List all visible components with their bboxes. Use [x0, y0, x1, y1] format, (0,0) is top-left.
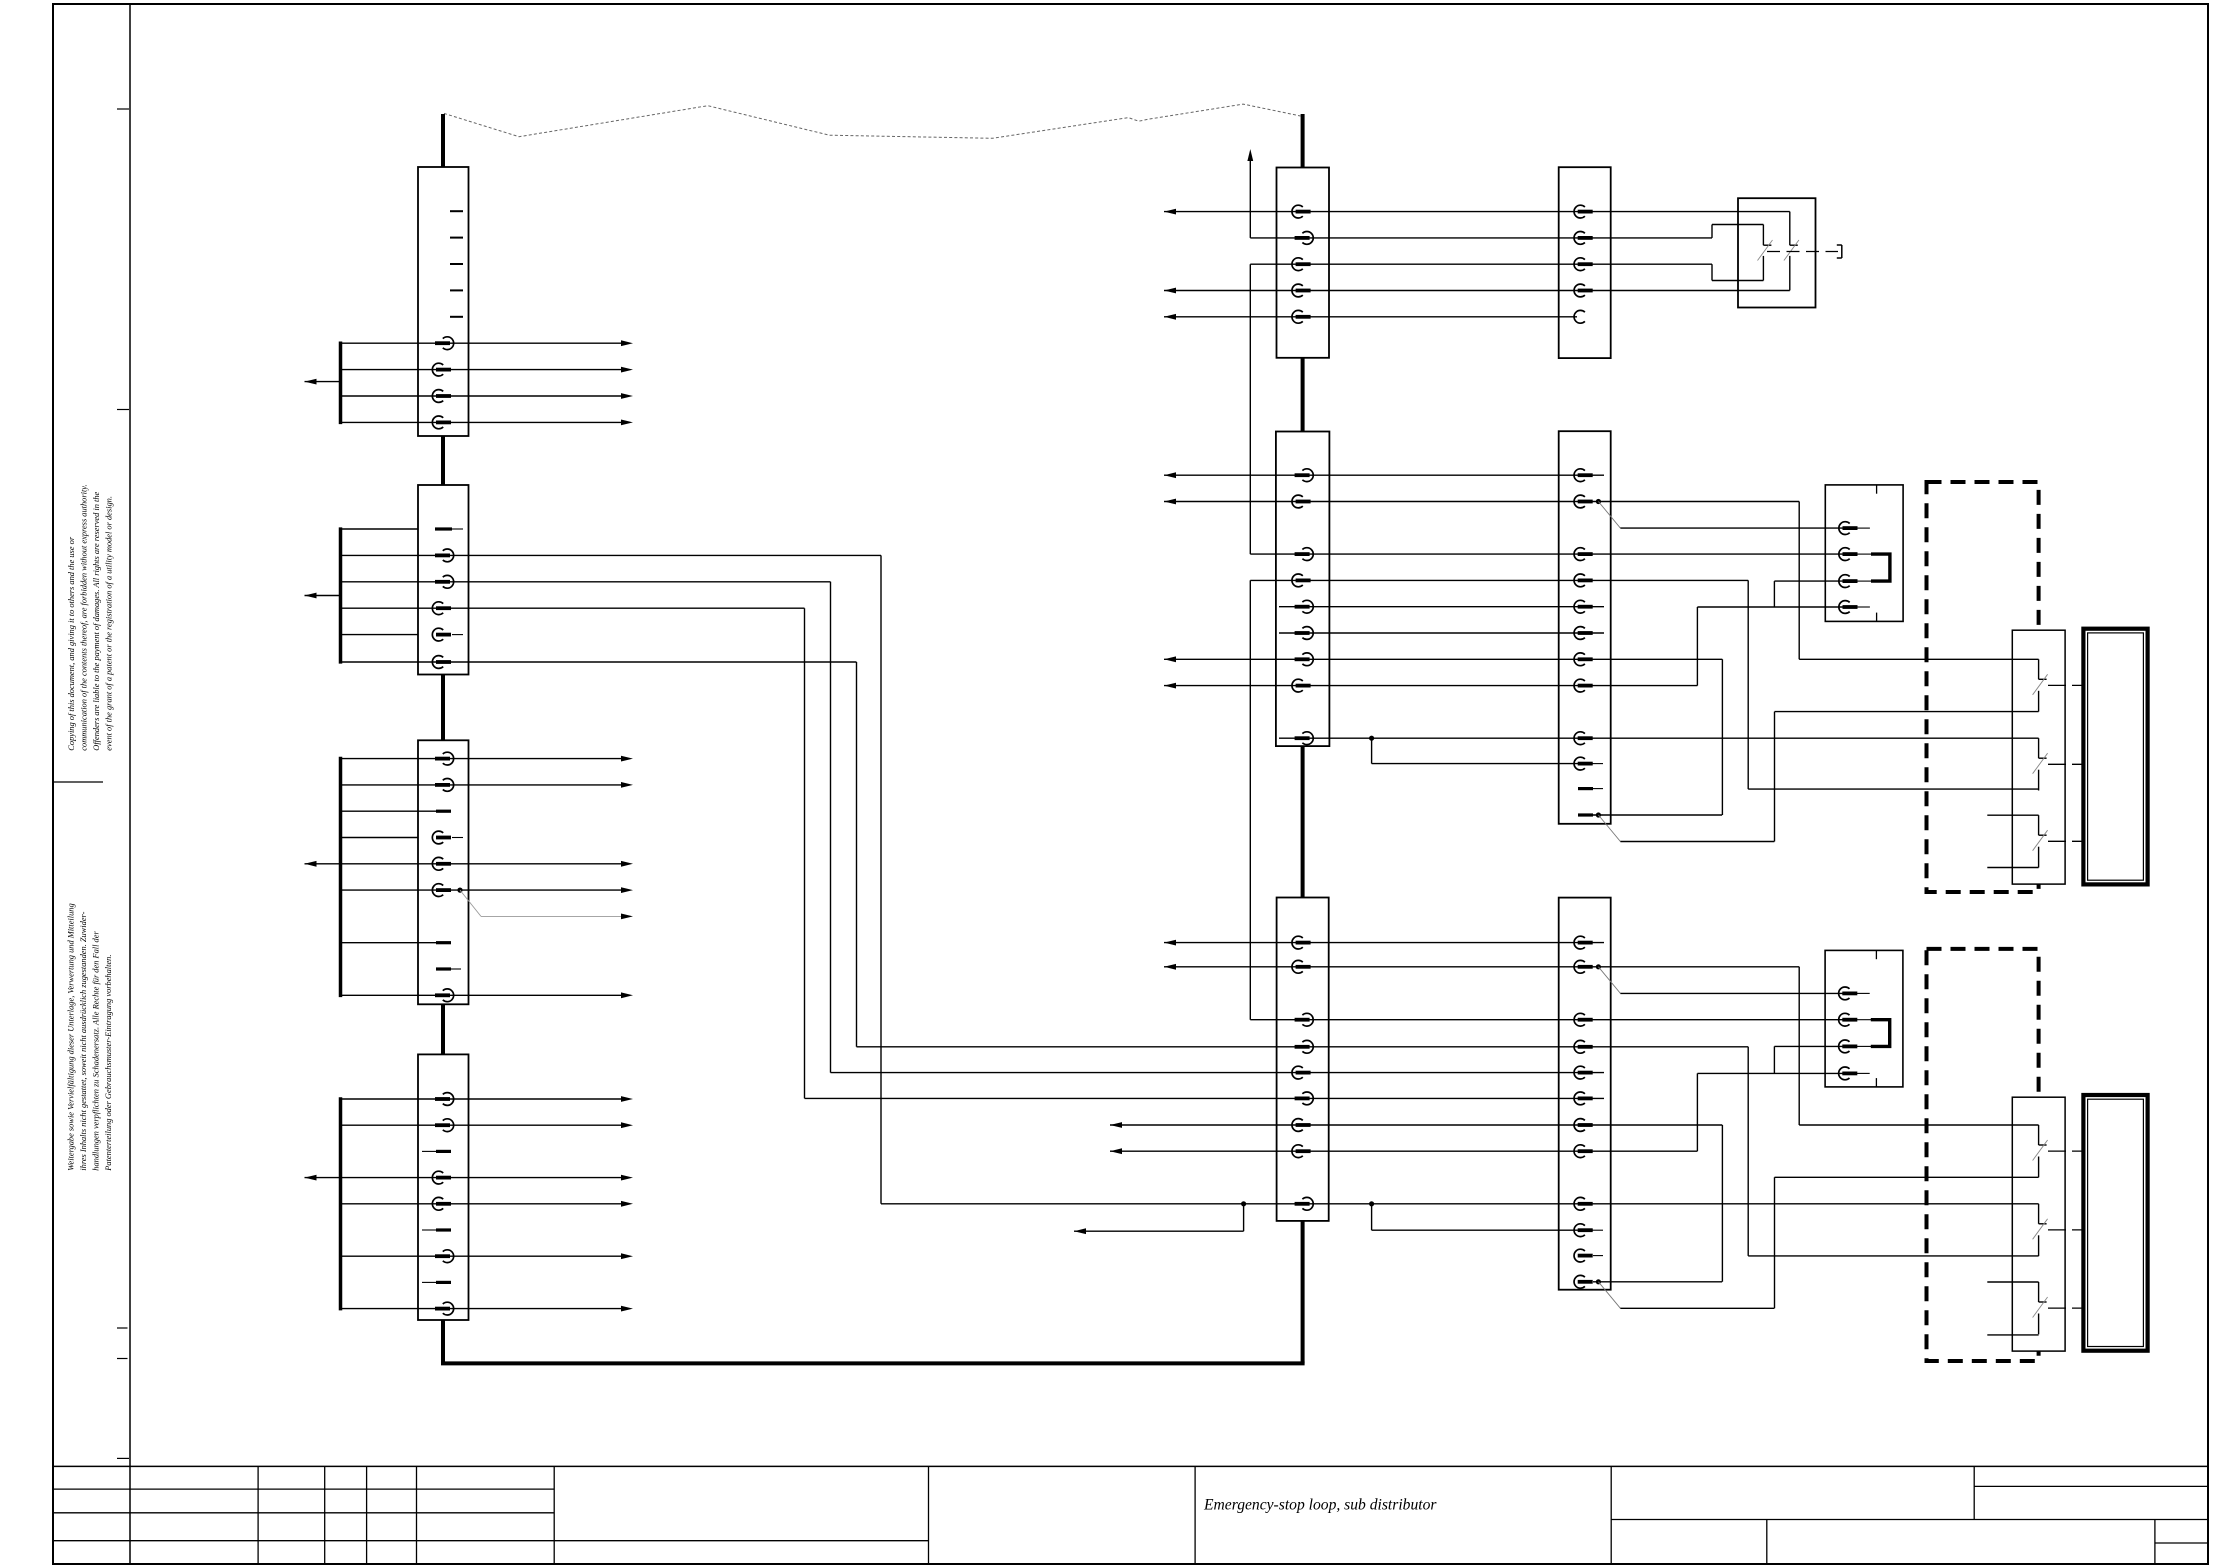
wire row 1072.6 [831, 1072, 1605, 1074]
NC contact K2.1 [2038, 1125, 2040, 1145]
wire row 237.9 (channel to e-stop loop top) [1250, 237, 1712, 239]
XS2 pin 2 [1839, 1013, 1858, 1026]
X5 pin y212 [1292, 205, 1311, 218]
wire row 1098.4 [805, 1097, 1605, 1099]
X1 pin y343 [435, 337, 454, 350]
svg-text:Copying of this document, and: Copying of this document, and giving it … [67, 536, 76, 751]
terminal strip X3 (left col block 3) [418, 740, 469, 1004]
copyright notice (German, rotated) [67, 903, 114, 1171]
X8 pin y238 [1574, 232, 1593, 245]
X9 pin y659 [1574, 653, 1593, 666]
svg-text:ihres Inhalts nicht gestattet,: ihres Inhalts nicht gestattet, soweit ni… [79, 911, 88, 1170]
terminal strip X2 (left col block 2) [418, 485, 469, 675]
cable W3 (left bracket block 3) [339, 757, 343, 997]
XS1 pin 3 [1839, 575, 1858, 588]
wire row 580.4 to riser x1748 [1250, 579, 1748, 581]
margin tick y1328 [117, 1327, 128, 1329]
channel x1251 row580 to row1019.7 [1249, 580, 1251, 1019]
cable W4 arrow [305, 1177, 341, 1179]
branch to X9 pin row 763.6 [1371, 738, 1373, 763]
wire row 581 to connector p3 [1774, 580, 1843, 582]
X9 pin y686 [1574, 679, 1593, 692]
wire row 554.1 to connector p2 [1250, 553, 1843, 555]
X2 pin row1 (dash) [435, 527, 452, 530]
wire row 815 from X9 dash [1593, 814, 1722, 816]
wire row 1019.7 to connector2 p2 [1250, 1019, 1843, 1021]
XS1 pin1 stub [1857, 527, 1870, 529]
X3 interconnect dot and branch to spare arrow [457, 888, 462, 893]
NC contact K1.2 [2038, 738, 2040, 758]
e-stop device box S1 [1738, 198, 1816, 307]
XS2 loop-back link (thick) [1857, 1019, 1871, 1021]
margin tick y409 [117, 409, 129, 411]
riser x1722.4 row1125-row1281.8 [1721, 1125, 1723, 1282]
wire row 475.2 [1164, 474, 1604, 476]
X6 pin y607 [1295, 600, 1314, 613]
XS2 pin1 stub [1857, 992, 1870, 994]
margin tick y109 [117, 108, 129, 110]
svg-text:communication of the contents: communication of the contents thereof, a… [80, 484, 89, 750]
fold mark y782 [53, 781, 103, 783]
X7 pin y1125 [1292, 1119, 1311, 1132]
contact link dashes K2.2 [2048, 1229, 2083, 1231]
riser x1697.4 lower [1696, 1073, 1698, 1151]
X4 dash pin y1151 [422, 1150, 436, 1152]
wire X2:5 stub [452, 634, 463, 636]
bus wire middle column (thick) [1301, 114, 1305, 168]
connector box XS1 [1825, 485, 1903, 622]
XS2 pin4 stub [1857, 1072, 1870, 1074]
contact box K1 (white) [2012, 630, 2065, 884]
svg-text:Emergency-stop loop, sub distr: Emergency-stop loop, sub distributor [1203, 1497, 1437, 1514]
wire row 606.7 [1279, 606, 1604, 608]
plug connector strip X10 (3rd col bottom) [1559, 898, 1611, 1290]
dashed enclosure K1 [1927, 482, 2039, 892]
X10 pin y1020 [1574, 1013, 1593, 1026]
X6 pin y580 [1292, 574, 1311, 587]
X10 pin y1151 [1574, 1145, 1593, 1158]
X5 pin y290 [1292, 284, 1311, 297]
X1 pin y422 [432, 416, 451, 429]
X9 pin y554 [1574, 548, 1593, 561]
X10 pin y943 [1574, 936, 1593, 949]
NC contact K1.3 [2038, 815, 2040, 835]
junction dot row1281 [1596, 1279, 1601, 1284]
XS2 pin 1 [1839, 987, 1858, 1000]
contact C2 stub top [1987, 1281, 2038, 1283]
X6 pin y659 [1295, 653, 1314, 666]
X2 pin y635 [432, 628, 451, 641]
terminal strip X7 (mid block C) [1277, 898, 1329, 1221]
X3 pin y995 [435, 989, 454, 1002]
wire row 211.6 (to e-stop contact 2) [1164, 211, 1790, 213]
X7 pin y967 [1292, 960, 1311, 973]
margin tick y1458 [117, 1457, 129, 1459]
riser x1748 to contact B2 bottom [1747, 1047, 1749, 1256]
connector box XS2 [1825, 950, 1903, 1087]
S1 NC contact 2 [1789, 212, 1791, 246]
contact link dashes K2.3 [2048, 1307, 2083, 1309]
wire X2:4 to mid block C row6 [418, 607, 805, 609]
wire row 1046.8 long from X2 area to riser x1748 [857, 1046, 1749, 1048]
drawing area left margin line [129, 4, 131, 1564]
XS2 pin 3 [1839, 1040, 1858, 1053]
wire row 1281.8 from X10 dash [1593, 1281, 1722, 1283]
branch riser x1774 p3 lower [1773, 1046, 1775, 1073]
wire X2:3 to mid block C row5 [418, 581, 831, 583]
X9 pin y738 [1574, 732, 1593, 745]
junction dot row738 [1369, 736, 1374, 741]
title block grid [53, 1466, 2208, 1564]
plug connector strip X9 (3rd col middle) [1559, 431, 1611, 824]
wire row 659.3 left segment [1164, 658, 1722, 660]
wire row 1308.3 [1620, 1307, 1774, 1309]
X6 pin y475 [1295, 469, 1314, 482]
wire row 841.5 [1620, 841, 1774, 843]
wire row 685.6 [1164, 685, 1697, 687]
wire row 633 [1279, 632, 1604, 634]
contact C2 stub bottom [1987, 1334, 2038, 1336]
channel x1250 row264 to row554 [1249, 264, 1251, 554]
load device box K2 (thick) [2083, 1095, 2147, 1351]
X7 pin y1204 [1295, 1197, 1314, 1210]
X3 pin y864 [432, 857, 451, 870]
X2 pin y662 [432, 656, 451, 669]
X6 pin y738 [1295, 732, 1314, 745]
X1 spare pins [450, 210, 463, 212]
copyright notice (English, rotated) [67, 484, 114, 750]
X2 pin y582 [435, 575, 454, 588]
X2 pin y608 [432, 602, 451, 615]
X6 pin y502 [1292, 495, 1311, 508]
bottom bus wire (thick) [441, 1361, 1305, 1365]
X9 pin y764 [1574, 757, 1593, 770]
svg-text:event of the grant of a patent: event of the grant of a patent or the re… [105, 496, 114, 751]
wire row 1203.8 long from X2 riser [881, 1203, 1722, 1205]
svg-text:handlungen verpflichten zu Sch: handlungen verpflichten zu Schadenersatz… [92, 931, 101, 1171]
riser channel x1250 with source arrow [1249, 161, 1251, 238]
X10 pin y1204 [1574, 1197, 1593, 1210]
NC contact K1.1 [2038, 659, 2040, 679]
X9 dash pin y789 [1578, 787, 1593, 790]
cable W2 arrow [305, 595, 341, 597]
W2 stub wire [341, 661, 419, 663]
cable W1 arrow [305, 381, 341, 383]
riser x1774.5 contact A2 bottom to row1308 [1774, 1177, 1776, 1308]
X4 wires to off-page arrows [341, 1098, 622, 1100]
wire row 1255.9 [1748, 1255, 2038, 1257]
load device box K1 (thick) [2083, 629, 2147, 885]
contact link dashes K1.1 [2048, 684, 2083, 686]
W2 stub wire [341, 581, 419, 583]
NC contact K2.3 [2038, 1282, 2040, 1302]
X4 dash pin y1230 [422, 1229, 436, 1231]
X10 pin y1073 [1574, 1066, 1593, 1079]
W2 stub wire [341, 607, 419, 609]
riser x1748 to contact B bottom [1747, 580, 1749, 789]
contact link dashes K1.2 [2048, 763, 2083, 765]
X1 pin y370 [432, 363, 451, 376]
X4 pin y1204 [432, 1197, 451, 1210]
wire row 1151.2 [1110, 1150, 1697, 1152]
XS1 pin 1 [1839, 522, 1858, 535]
branch riser x1774 p3 [1773, 581, 1775, 607]
X4 pin y1309 [435, 1302, 454, 1315]
wire X2:2 to mid block C row9 [418, 554, 881, 556]
bus wire left column (thick) [441, 114, 445, 167]
dashed enclosure K2 [1927, 949, 2039, 1361]
X9 pin y633 [1574, 627, 1593, 640]
wire row 1073.4 to connector2 p4 [1697, 1072, 1843, 1074]
wire row 1125 left segment [1110, 1124, 1722, 1126]
X4 pin y1256 [435, 1250, 454, 1263]
riser x1799 to contact A top [1798, 502, 1800, 660]
wire row 738.2 right segment into contact B top [1722, 737, 2039, 739]
branch wire row 528.1 to connector p1 [1620, 527, 1843, 529]
W2 stub wire [341, 634, 419, 636]
wire row 942.6 [1164, 942, 1604, 944]
wire row 501.5 net to contact A top [1164, 501, 1799, 503]
riser x1774.5 contact A bottom to row841 [1774, 712, 1776, 842]
wire row 1203.8 right segment into contact B2 top [1722, 1203, 2039, 1205]
cable W3 arrow [305, 863, 341, 865]
junction dot row815 [1596, 812, 1601, 817]
wire row 738.2 left segment [1279, 737, 1722, 739]
X9 pin y580 [1574, 574, 1593, 587]
X1 wires to off-page arrows [341, 342, 622, 344]
X10 pin y967 [1574, 960, 1593, 973]
XS1 pin 2 [1839, 548, 1858, 561]
X7 pin y1020 [1295, 1013, 1314, 1026]
X4 dash pin y1282 [422, 1281, 436, 1283]
S1 NC contact 1 [1762, 225, 1764, 246]
cable-break squiggle between bus tops [444, 104, 1301, 138]
X6 pin y633 [1295, 627, 1314, 640]
X3 pin y759 [435, 752, 454, 765]
X1 pin y396 [432, 390, 451, 403]
X9 pin y502 [1574, 495, 1593, 508]
wire row 1177.3 to contact A2 bottom [1775, 1176, 2039, 1178]
X3 pin y785 [435, 779, 454, 792]
X7 pin y1073 [1292, 1066, 1311, 1079]
wire row 264.2 (e-stop loop bottom) [1250, 263, 1712, 265]
X8 pin y290 [1574, 284, 1593, 297]
X9 pin y607 [1574, 600, 1593, 613]
terminal strip X4 (left col block 4) [418, 1054, 469, 1320]
X10 pin y1047 [1574, 1040, 1593, 1053]
contact link dashes K2.1 [2048, 1150, 2083, 1152]
X5 pin y238 [1295, 232, 1314, 245]
riser x1722.4 row659-row815 [1721, 659, 1723, 815]
X8 socket-only pin y317 [1574, 310, 1585, 323]
XS1 loop-back link (thick) [1857, 553, 1871, 555]
X10 pin y1125 [1574, 1119, 1593, 1132]
svg-text:Offenders are liable to the pa: Offenders are liable to the payment of d… [92, 491, 101, 750]
X4 pin y1178 [432, 1171, 451, 1184]
branch to return arrow [1243, 1204, 1245, 1231]
X7 pin y1047 [1295, 1040, 1314, 1053]
wire X2:6 to mid block C row4 [418, 661, 857, 663]
X3 dash pin y969 [436, 967, 451, 970]
X3 pin y890 [432, 884, 451, 897]
wire row 290.5 (to e-stop contact 2 bottom) [1164, 290, 1790, 292]
cable W1 (left bracket block 1) [339, 342, 343, 425]
junction dot 1371 [1369, 1201, 1374, 1206]
contact link dashes K1.3 [2048, 840, 2083, 842]
wire row 1046.4 to connector2 p3 [1774, 1045, 1843, 1047]
XS1 top tick [1876, 485, 1878, 494]
margin tick y1358 [117, 1358, 128, 1360]
X6 pin y686 [1292, 679, 1311, 692]
X9 pin y475 [1574, 469, 1593, 482]
wire row 1125 right segment [1799, 1124, 2038, 1126]
XS1 bottom tick [1876, 613, 1878, 622]
wire row 607 to connector p4 [1697, 606, 1843, 608]
wire row 789.1 to contact B bottom [1748, 788, 2038, 790]
X10 pin y1256 [1574, 1249, 1593, 1262]
riser x1697.4 [1696, 607, 1698, 686]
cable W2 (left bracket block 2) [339, 527, 343, 663]
W2 stub wire [341, 528, 419, 530]
svg-text:Weitergabe sowie Vervielfältig: Weitergabe sowie Vervielfältigung dieser… [67, 903, 76, 1170]
XS2 bottom tick [1875, 1078, 1877, 1087]
S1 contact 1 loop wiring [1712, 224, 1763, 226]
X7 pin y1151 [1292, 1145, 1311, 1158]
terminal strip X1 (left col block 1) [418, 167, 469, 436]
X5 pin y317 [1292, 310, 1311, 323]
contact C stub bottom [1987, 867, 2038, 869]
X8 pin y264 [1574, 258, 1593, 271]
terminal strip X5 (mid block A) [1277, 168, 1330, 358]
X3 dash pin y811 [341, 810, 437, 812]
X6 pin y554 [1295, 548, 1314, 561]
X10 pin y1230 [1574, 1224, 1593, 1237]
branch to X10 pin row 1230.2 [1371, 1204, 1373, 1230]
X10 pin y1098 [1574, 1092, 1593, 1105]
X3 dash pin y943 [341, 942, 437, 944]
XS1 pin 4 [1839, 601, 1858, 614]
wire row 659.3 right segment into contact A [1799, 658, 2038, 660]
S1 mechanical link (dashed) [1767, 251, 1838, 253]
X9 dash pin y815 [1578, 813, 1593, 816]
wire row 711.6 to contact A bottom [1775, 711, 2039, 713]
cable W4 (left bracket block 4) [339, 1097, 343, 1310]
XS2 pin 4 [1839, 1067, 1858, 1080]
X3 stub wires from bracket [341, 837, 419, 839]
XS1 pin4 stub [1857, 606, 1870, 608]
X2 pin y555 [435, 549, 454, 562]
XS2 top tick [1875, 950, 1877, 959]
plug connector strip X8 (3rd col top) [1559, 167, 1611, 358]
S1 actuator head symbol [1841, 245, 1843, 258]
wire row 966.8 net to contact A2 top [1164, 966, 1799, 968]
contact C stub top [1987, 814, 2038, 816]
X10 pin y1282 [1574, 1275, 1593, 1288]
junction dot 1243 [1241, 1201, 1246, 1206]
X7 pin y1098 [1295, 1092, 1314, 1105]
X4 pin y1125 [435, 1119, 454, 1132]
contact box K2 (white) [2012, 1097, 2065, 1351]
X5 pin y264 [1292, 258, 1311, 271]
X3 pin y838 [432, 831, 451, 844]
wire row 316.8 [1164, 316, 1577, 318]
branch wire row 993.4 to connector2 p1 [1620, 992, 1843, 994]
W2 stub wire [341, 554, 419, 556]
NC contact K2.2 [2038, 1204, 2040, 1224]
X10 pin11 stub [1593, 1255, 1603, 1257]
X8 pin y212 [1574, 205, 1593, 218]
svg-text:Patenterteilung oder Gebrauchs: Patenterteilung oder Gebrauchsmuster-Ein… [104, 955, 113, 1172]
terminal strip X6 (mid block B) [1276, 432, 1330, 747]
X7 pin y943 [1292, 936, 1311, 949]
riser x1799 to contact A2 top [1798, 967, 1800, 1125]
X4 pin y1099 [435, 1093, 454, 1106]
X3 wires to off-page arrows [341, 758, 622, 760]
